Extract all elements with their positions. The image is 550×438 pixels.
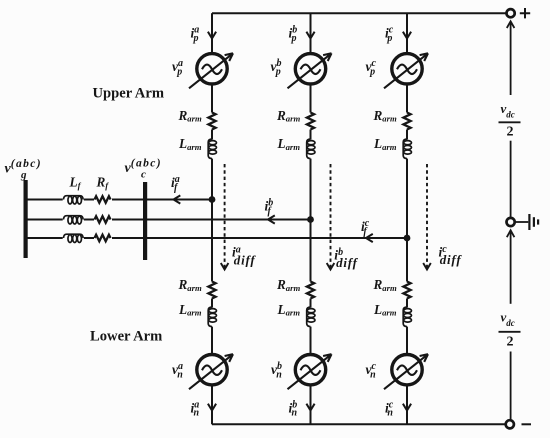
wire: phase a node to lower R_arm — [211, 200, 213, 282]
svg-text:van: van — [172, 361, 183, 380]
svg-text:vcn: vcn — [366, 361, 377, 380]
svg-text:Larm: Larm — [277, 136, 301, 152]
svg-text:v(abc)c: v(abc)c — [125, 158, 162, 181]
arrow i_p^b — [306, 32, 314, 39]
inductor L_f line 2 — [63, 213, 84, 225]
arrow i_p^a — [208, 32, 216, 39]
fraction bar upper — [499, 121, 521, 123]
inductor L_arm lower b — [307, 307, 315, 327]
svg-text:vbn: vbn — [271, 361, 282, 380]
inductor L_arm upper b — [307, 139, 315, 159]
wire: b R to L — [310, 130, 312, 140]
wire: phase c node to lower R_arm — [406, 238, 408, 282]
wire: a R to L — [211, 130, 213, 140]
label: minus sign — [522, 423, 532, 425]
svg-text:ibf: ibf — [265, 198, 274, 217]
node: phase a junction — [209, 196, 216, 203]
wire: AC line 3 — [28, 237, 408, 239]
label: plus sign — [520, 8, 530, 18]
inductor L_arm upper c — [403, 139, 411, 159]
svg-text:icn: icn — [385, 399, 394, 418]
svg-text:iap: iap — [191, 25, 200, 44]
svg-text:Larm: Larm — [373, 136, 397, 152]
resistor R_arm upper b — [307, 113, 314, 130]
svg-text:Larm: Larm — [373, 302, 397, 318]
wire: c lower R to L — [406, 299, 408, 308]
svg-text:v(abc)g: v(abc)g — [5, 158, 42, 181]
svg-text:vbp: vbp — [271, 58, 282, 77]
wire: c R to L — [406, 130, 408, 140]
wire: phase a lower drop — [211, 385, 213, 424]
wire: b coil to node — [310, 159, 312, 220]
resistor R_arm upper a — [208, 113, 215, 130]
svg-text:icp: icp — [385, 25, 394, 44]
resistor R_f line 2 — [94, 213, 112, 226]
wire: v_dc label to midpoint terminal — [510, 141, 512, 218]
inductor L_arm lower c — [403, 307, 411, 327]
svg-text:Larm: Larm — [277, 302, 301, 318]
resistor R_arm lower c — [403, 282, 410, 299]
terminal: DC midpoint — [507, 218, 515, 226]
wire: phase c source to R_arm — [406, 84, 408, 113]
terminal: DC negative — [506, 420, 514, 428]
arrow: v_dc/2 upper (points up to positive terminal) — [507, 21, 515, 95]
svg-text:Lf: Lf — [69, 175, 82, 191]
voltage source v_p^c — [384, 53, 428, 88]
wire: phase c lower drop — [406, 385, 408, 424]
resistor R_arm lower b — [307, 282, 314, 299]
resistor R_arm upper c — [403, 113, 410, 130]
node: phase b junction — [307, 216, 314, 223]
wire: a lower R to L — [211, 299, 213, 308]
wire: c coil to lower source — [406, 327, 408, 355]
svg-text:Rf: Rf — [96, 175, 110, 191]
wire: phase c upper drop — [406, 13, 408, 53]
svg-text:ibdiff: ibdiff — [334, 247, 358, 270]
arrow i_n^a — [208, 404, 216, 411]
svg-text:ibn: ibn — [289, 399, 298, 418]
wire: AC line 2 — [28, 219, 311, 221]
voltage source v_n^c — [384, 354, 428, 389]
svg-text:Rarm: Rarm — [178, 108, 203, 124]
wire: b coil to lower source — [310, 327, 312, 355]
svg-text:Larm: Larm — [178, 136, 202, 152]
wire: AC line 1 — [28, 199, 213, 201]
voltage source v_p^a — [189, 53, 233, 88]
wire: a coil to lower source — [211, 327, 213, 355]
resistor R_f line 1 — [94, 193, 112, 206]
dashed arrow i_diff^a — [221, 164, 229, 270]
arrow i_f^c — [366, 234, 373, 242]
arrow: v_dc/2 lower (points up to midpoint) — [507, 230, 515, 303]
arrow i_p^c — [403, 32, 411, 39]
svg-text:iadiff: iadiff — [232, 244, 256, 267]
svg-text:vdc: vdc — [501, 101, 515, 119]
svg-text:Lower Arm: Lower Arm — [90, 329, 162, 345]
svg-text:vap: vap — [172, 58, 183, 77]
svg-text:ian: ian — [191, 399, 200, 418]
svg-text:Rarm: Rarm — [276, 277, 301, 293]
inductor L_arm upper a — [208, 139, 216, 159]
svg-text:Upper Arm: Upper Arm — [93, 85, 164, 101]
wire: b lower R to L — [310, 299, 312, 308]
node: phase c junction — [404, 235, 411, 242]
svg-text:2: 2 — [507, 124, 514, 139]
wire: phase a source to R_arm — [211, 84, 213, 113]
inductor L_f line 1 — [63, 193, 84, 205]
svg-text:icf: icf — [361, 218, 370, 237]
svg-text:icdiff: icdiff — [439, 244, 463, 267]
arrow i_f^b — [268, 215, 275, 223]
arrow i_n^c — [403, 404, 411, 411]
svg-text:Rarm: Rarm — [178, 277, 203, 293]
wire: phase b upper drop — [310, 13, 312, 53]
svg-text:Larm: Larm — [178, 302, 202, 318]
svg-text:iaf: iaf — [171, 174, 180, 193]
wire: top DC bus — [212, 12, 506, 14]
ground — [516, 214, 539, 230]
dashed arrow i_diff^b — [327, 164, 335, 270]
svg-text:vdc: vdc — [501, 310, 515, 328]
wire: phase b lower drop — [310, 385, 312, 424]
wire: c coil to node — [406, 159, 408, 238]
voltage source v_p^b — [288, 53, 332, 88]
svg-text:Rarm: Rarm — [276, 108, 301, 124]
wire: phase b node to lower R_arm — [310, 220, 312, 282]
wire: phase b source to R_arm — [310, 84, 312, 113]
terminal: DC positive — [507, 9, 515, 17]
wire: phase a upper drop — [211, 13, 213, 53]
wire: v_dc label to negative terminal — [510, 352, 512, 421]
fraction bar lower — [499, 331, 521, 333]
arrow i_n^b — [306, 404, 314, 411]
wire: bottom DC bus — [212, 423, 505, 425]
bus bar: grid side — [24, 180, 28, 258]
voltage source v_n^b — [288, 354, 332, 389]
resistor R_f line 3 — [94, 232, 112, 245]
svg-text:Rarm: Rarm — [373, 277, 398, 293]
resistor R_arm lower a — [208, 282, 215, 299]
svg-text:Rarm: Rarm — [373, 108, 398, 124]
dashed arrow i_diff^c — [423, 164, 431, 270]
wire: a coil to node — [211, 159, 213, 200]
voltage source v_n^a — [189, 354, 233, 389]
arrow i_f^a — [174, 195, 181, 203]
bus bar: converter side — [143, 182, 147, 260]
inductor L_arm lower a — [208, 307, 216, 327]
svg-text:ibp: ibp — [289, 25, 298, 44]
svg-text:vcp: vcp — [366, 58, 377, 77]
inductor L_f line 3 — [63, 232, 84, 244]
svg-text:2: 2 — [507, 334, 514, 349]
